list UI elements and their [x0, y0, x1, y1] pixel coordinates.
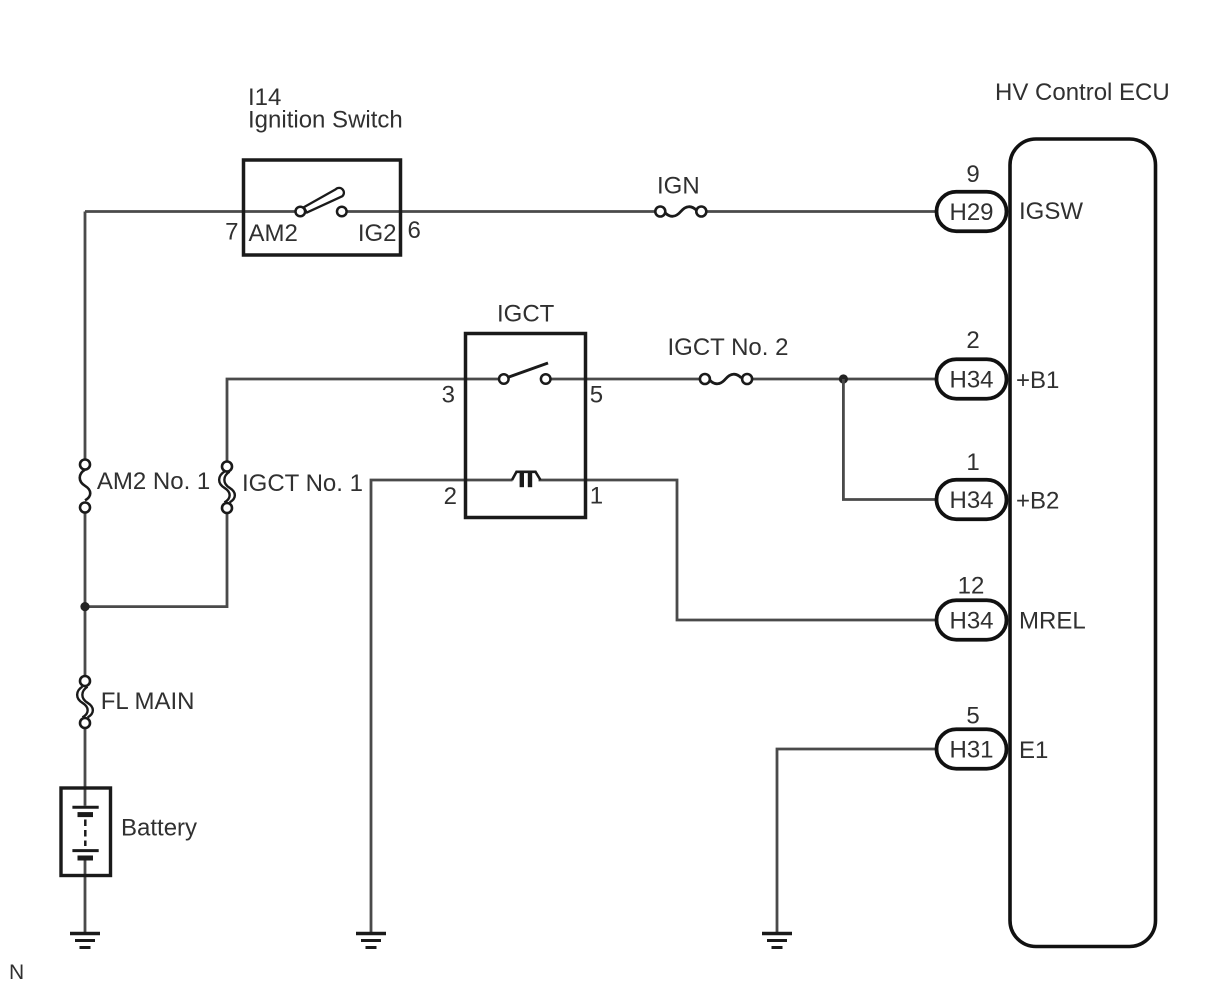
connector H29 (IGSW) — [937, 192, 1007, 232]
relay IGCT switch contact pin 3 — [499, 374, 509, 384]
wire: H31 connector E1 to right ground — [777, 749, 937, 934]
svg-text:IGN: IGN — [657, 173, 700, 200]
svg-text:+B2: +B2 — [1016, 488, 1059, 515]
wire: relay pin 5 to IGCT No.2 fuse — [550, 378, 700, 381]
ground at battery — [70, 934, 100, 948]
svg-text:H31: H31 — [949, 737, 993, 764]
junction dot on left rail — [80, 602, 89, 611]
wire: battery negative to ground — [84, 860, 87, 934]
wire: left battery rail middle segment between AM2 No.1 fuse and FL MAIN — [84, 513, 87, 677]
svg-text:6: 6 — [408, 217, 421, 244]
fusible link FL MAIN — [77, 676, 93, 728]
svg-text:2: 2 — [966, 327, 979, 354]
wire: relay coil pin 2 to middle ground — [371, 480, 513, 934]
HV Control ECU box — [1010, 139, 1156, 947]
svg-text:H34: H34 — [949, 487, 993, 514]
svg-text:9: 9 — [966, 161, 979, 188]
svg-text:HV Control ECU: HV Control ECU — [995, 79, 1170, 106]
battery cell 2 negative plate — [78, 856, 94, 861]
wire: IGCT No.1 fuse up to relay pin 3 — [227, 379, 499, 462]
relay IGCT switch contact pin 5 — [541, 374, 551, 384]
svg-text:IGCT No. 2: IGCT No. 2 — [668, 334, 789, 361]
wire: IGCT No.2 fuse to H34 connector +B1 — [752, 378, 937, 381]
wire: branch from left rail junction to IGCT No.1 fuse — [85, 513, 227, 607]
relay IGCT coil — [512, 472, 541, 487]
connector H34 (+B1) — [937, 359, 1007, 399]
connector H34 (MREL) — [937, 600, 1007, 640]
svg-text:1: 1 — [590, 483, 603, 510]
fuse AM2 No.1 — [80, 460, 91, 513]
fuse IGCT No.2 — [700, 374, 752, 384]
battery cell 1 negative plate — [78, 812, 94, 817]
ignition switch I14 contact IG2 — [337, 207, 347, 217]
relay IGCT switch lever — [508, 363, 549, 378]
svg-text:2: 2 — [444, 483, 457, 510]
battery cell 2 positive plate — [72, 849, 98, 852]
svg-text:7: 7 — [225, 219, 238, 246]
svg-text:+B1: +B1 — [1016, 367, 1059, 394]
wire: left rail into battery positive plate — [84, 728, 87, 806]
wire: IGN fuse to H29 connector IGSW — [706, 210, 936, 213]
junction dot on +B1 wire — [839, 374, 848, 383]
wire: relay coil pin 1 to H34 connector MREL — [539, 480, 937, 620]
battery box — [61, 788, 111, 876]
svg-text:Battery: Battery — [121, 815, 197, 842]
ground at E1 — [762, 934, 792, 948]
wire: left battery rail upper segment (AM2 feed) — [84, 212, 87, 460]
wire: +B1 junction down to H34 connector +B2 — [843, 379, 936, 500]
svg-text:IGCT No. 1: IGCT No. 1 — [242, 470, 363, 497]
svg-text:H34: H34 — [949, 367, 993, 394]
ignition switch I14 contact AM2 — [296, 207, 306, 217]
svg-text:IGCT: IGCT — [497, 301, 555, 328]
svg-text:IGSW: IGSW — [1019, 198, 1083, 225]
svg-text:E1: E1 — [1019, 737, 1048, 764]
svg-text:AM2: AM2 — [249, 220, 298, 247]
fuse IGN — [655, 207, 706, 217]
svg-text:Ignition Switch: Ignition Switch — [248, 107, 403, 134]
svg-text:MREL: MREL — [1019, 608, 1086, 635]
connector H31 (E1) — [937, 729, 1007, 769]
svg-text:H29: H29 — [949, 199, 993, 226]
svg-text:1: 1 — [966, 449, 979, 476]
svg-text:IG2: IG2 — [358, 220, 397, 247]
svg-text:12: 12 — [958, 573, 985, 600]
svg-text:H34: H34 — [949, 608, 993, 635]
connector H34 (+B2) — [937, 480, 1007, 520]
svg-text:3: 3 — [442, 382, 455, 409]
svg-text:5: 5 — [966, 703, 979, 730]
ignition switch I14 box — [244, 160, 401, 255]
battery internal dashed link — [84, 820, 87, 847]
wire: IG2 output from ignition switch to IGN fuse — [347, 210, 656, 213]
fusible link IGCT No.1 — [219, 462, 235, 514]
svg-text:FL MAIN: FL MAIN — [101, 688, 195, 715]
relay IGCT box — [466, 334, 586, 518]
svg-text:5: 5 — [590, 382, 603, 409]
wire: AM2 rail top segment from left rail to ignition switch contact — [85, 210, 296, 213]
battery cell 1 positive plate — [72, 806, 98, 809]
ground at relay coil pin 2 — [356, 934, 386, 948]
svg-text:AM2 No. 1: AM2 No. 1 — [97, 468, 210, 495]
svg-text:N: N — [9, 961, 24, 984]
ignition switch I14 lever — [304, 188, 344, 213]
